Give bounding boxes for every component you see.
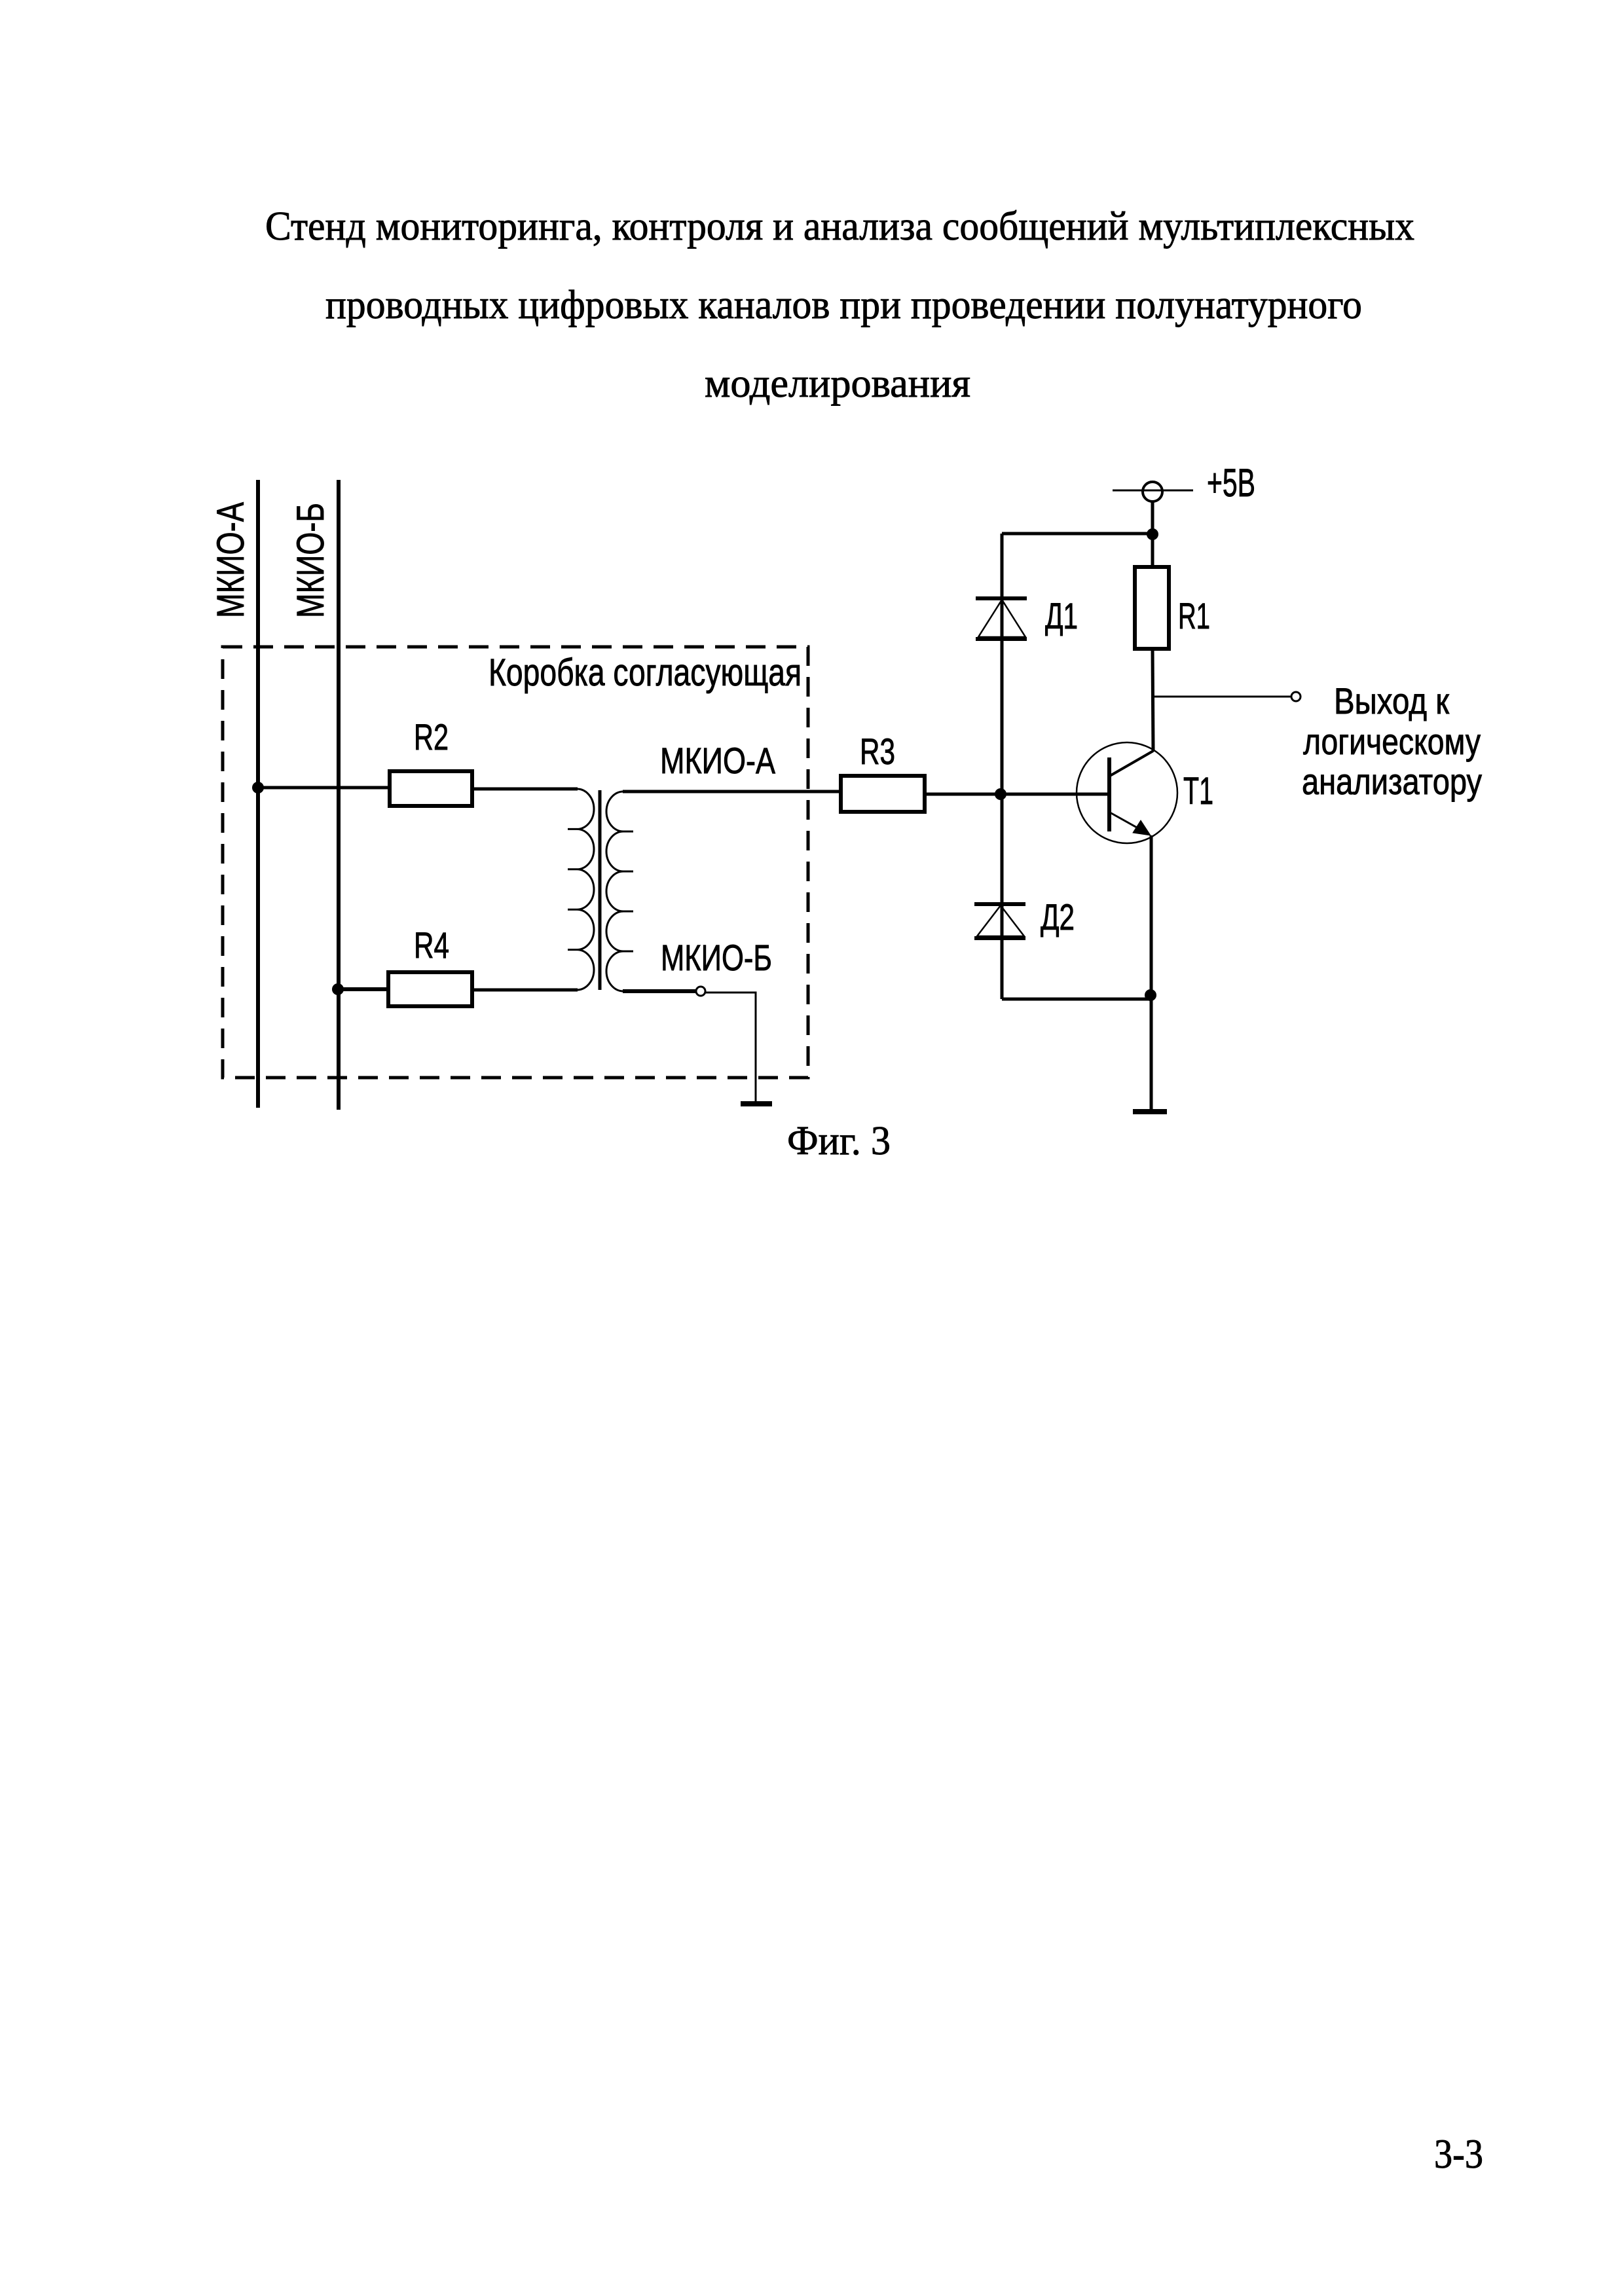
transistor T1 collector lead: [1110, 751, 1153, 776]
svg-text:логическому: логическому: [1303, 721, 1481, 762]
resistor R1: [1135, 567, 1169, 649]
wire bus A to R2: [258, 786, 390, 790]
wire diode branch bottom to emitter: [1002, 998, 1151, 1001]
resistor R4: [388, 972, 472, 1006]
wire R4 to transformer primary bottom: [472, 989, 578, 992]
ground under transformer: [741, 1101, 772, 1106]
node B junction dot on bus B: [332, 983, 344, 995]
svg-text:МКИО-А: МКИО-А: [210, 502, 252, 618]
node base junction dot: [995, 788, 1006, 800]
transformer TR core: [599, 790, 602, 990]
transistor T1 circle: [1077, 742, 1177, 843]
diode D2 triangle: [977, 905, 1024, 936]
wire R3 to base node: [925, 793, 1109, 796]
svg-text:моделирования: моделирования: [705, 361, 970, 406]
diode D1 triangle: [978, 600, 1025, 637]
transistor T1 emitter lead: [1110, 812, 1149, 834]
transistor T1 emitter arrow: [1133, 820, 1151, 835]
secondary winding cusp ticks: [623, 831, 633, 951]
wire terminal to ground (thin): [705, 993, 756, 1102]
dashed box (Коробка согласующая): [223, 647, 808, 1078]
svg-text:Фиг. 3: Фиг. 3: [787, 1119, 891, 1163]
node A junction dot on bus A: [252, 782, 264, 793]
svg-text:Д2: Д2: [1041, 896, 1075, 938]
svg-text:Коробка согласующая: Коробка согласующая: [489, 651, 802, 694]
svg-text:Д1: Д1: [1045, 595, 1078, 636]
diode D2 anode bar: [974, 936, 1025, 940]
wire R2 to transformer primary top: [472, 788, 578, 791]
svg-text:R1: R1: [1178, 595, 1210, 636]
svg-text:3-3: 3-3: [1434, 2130, 1483, 2177]
primary winding cusp ticks: [568, 829, 577, 949]
diode branch vertical wire: [1001, 534, 1004, 999]
svg-text:R2: R2: [414, 716, 449, 757]
diode D1 anode bar: [976, 637, 1027, 641]
svg-text:Стенд мониторинга, контроля и: Стенд мониторинга, контроля и анализа со…: [265, 204, 1414, 249]
svg-text:R4: R4: [414, 924, 449, 966]
+5V terminal circle: [1143, 482, 1162, 501]
svg-text:анализатору: анализатору: [1302, 761, 1482, 802]
emitter vertical wire: [1150, 835, 1153, 1110]
wire diode branch top to +5V rail: [1002, 532, 1153, 536]
ground under emitter: [1133, 1109, 1167, 1114]
svg-text:+5В: +5В: [1207, 461, 1255, 505]
svg-text:T1: T1: [1183, 770, 1213, 812]
transformer TR secondary winding: [606, 792, 623, 991]
node +5V junction dot: [1147, 528, 1158, 540]
wire bus B to R4: [338, 987, 388, 991]
svg-text:проводных цифровых каналов при: проводных цифровых каналов при проведени…: [325, 283, 1362, 327]
svg-text:Выход к: Выход к: [1334, 680, 1449, 721]
svg-text:МКИО-Б: МКИО-Б: [289, 503, 332, 618]
transformer TR primary winding: [577, 789, 594, 990]
resistor R3: [841, 776, 925, 812]
wire R1 to collector: [1153, 649, 1153, 752]
bus A line (МКИО-А): [256, 480, 260, 1108]
open terminal circle on secondary bottom: [696, 987, 705, 996]
diode D1 cathode bar: [976, 596, 1027, 600]
output wire: [1153, 696, 1291, 698]
wire secondary top to R3: [623, 790, 841, 793]
transistor T1 base bar: [1107, 757, 1111, 831]
+5V rail line: [1113, 490, 1193, 492]
bus B line (МКИО-Б): [337, 480, 341, 1110]
svg-text:МКИО-Б: МКИО-Б: [661, 937, 772, 978]
svg-text:МКИО-А: МКИО-А: [660, 740, 776, 781]
diode D2 cathode bar: [974, 902, 1025, 906]
resistor R2: [390, 771, 472, 806]
wire secondary bottom to terminal: [623, 989, 695, 993]
output open terminal: [1291, 692, 1301, 701]
svg-text:R3: R3: [860, 731, 895, 772]
node emitter junction dot: [1145, 989, 1156, 1001]
wire +5V down to R1: [1151, 501, 1154, 567]
